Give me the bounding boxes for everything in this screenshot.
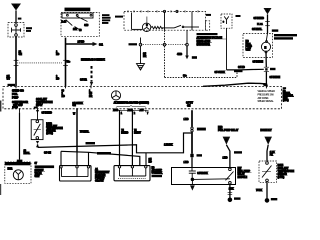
caption bracket xyxy=(116,105,146,108)
svg-text:INPUT: INPUT xyxy=(36,105,43,107)
svg-text:SENSOR: SENSOR xyxy=(278,174,288,176)
W10 label (black) xyxy=(234,197,241,199)
svg-text:0.5 BK/GN: 0.5 BK/GN xyxy=(270,77,281,79)
splice label (black) xyxy=(270,68,276,70)
svg-text:UNIT: UNIT xyxy=(35,176,41,178)
ground point W10 xyxy=(228,198,233,203)
connector on TD wire xyxy=(17,160,23,162)
label right of cluster xyxy=(206,14,211,16)
gauge pin stub xyxy=(146,17,148,24)
svg-text:SPEED SIGNAL: SPEED SIGNAL xyxy=(258,100,275,103)
sensor feed wire xyxy=(267,145,268,161)
K9 label block xyxy=(152,167,164,177)
svg-text:0.5 WT: 0.5 WT xyxy=(186,103,194,105)
resistor (gauge series) xyxy=(151,26,163,28)
svg-text:TEMPERATURE: TEMPERATURE xyxy=(278,170,295,173)
module bottom pin: TD signal xyxy=(12,106,20,113)
svg-text:ALTERNATOR GROUND (BEHIND): ALTERNATOR GROUND (BEHIND) xyxy=(114,102,149,105)
wire cluster to ground W7 xyxy=(140,46,142,64)
svg-text:D: D xyxy=(267,138,269,142)
scan edge artifact upper xyxy=(0,101,1,112)
ground arrow under relay xyxy=(190,185,195,190)
svg-text:0.5 GN: 0.5 GN xyxy=(44,152,51,154)
relay label block K27 xyxy=(238,168,252,179)
relay feed wire xyxy=(226,145,230,168)
svg-text:A: A xyxy=(266,9,268,13)
coolant temperature sensor B11/4 (dashed box) xyxy=(259,161,277,182)
gauge feed wires inside cluster xyxy=(131,13,133,30)
connector label (black) xyxy=(129,43,138,45)
wire pin 192 down xyxy=(191,110,193,127)
fuel pump relay K27 (long box) xyxy=(172,168,236,185)
module internal text left xyxy=(12,90,28,106)
module bottom pins bracket xyxy=(117,110,149,112)
harness connector line (dashed) with circles xyxy=(139,43,188,46)
svg-text:MODULE: MODULE xyxy=(238,177,248,179)
svg-text:0.5 RD/BK: 0.5 RD/BK xyxy=(197,173,208,175)
svg-text:HORN RLY: HORN RLY xyxy=(260,130,272,132)
alternator regulator label block A8 xyxy=(197,33,227,46)
svg-text:B11/4: B11/4 xyxy=(278,164,284,167)
sensor B11/4 label block xyxy=(278,164,295,179)
label A1 left of cluster xyxy=(115,16,123,18)
cluster pin circles xyxy=(163,10,165,12)
module internal text middle xyxy=(36,98,53,107)
wire splice to module pin xyxy=(265,72,267,87)
svg-text:TEMPERATURE: TEMPERATURE xyxy=(36,101,53,104)
svg-text:GN: GN xyxy=(187,105,191,107)
TD wire down xyxy=(19,113,21,160)
wire X35 down xyxy=(191,132,193,154)
fuel level sensor G20 (dashed box) xyxy=(8,23,24,38)
sensor run wire across to relay column xyxy=(38,133,191,153)
fuel pump ground wire xyxy=(265,52,267,67)
wire cluster to alternator connector xyxy=(186,30,188,43)
svg-text:CIRCUIT: CIRCUIT xyxy=(95,180,104,182)
cluster internal wire 164 xyxy=(164,13,166,31)
svg-text:(4 PIN): (4 PIN) xyxy=(46,132,53,135)
svg-text:PRESSURE SW: PRESSURE SW xyxy=(258,94,275,96)
interface connector box left (solid) xyxy=(60,166,92,181)
coolant temperature sensor B11/2 xyxy=(31,120,43,140)
fuel pump label (black, 2 rows) xyxy=(274,34,297,40)
svg-text:POS OF ACC VOLT: POS OF ACC VOLT xyxy=(65,9,86,12)
wire into relay box xyxy=(191,157,193,167)
svg-text:RD: RD xyxy=(62,96,66,98)
connector triangle A (fuel pump feed) xyxy=(264,8,272,14)
svg-text:4 RD: 4 RD xyxy=(177,53,182,56)
svg-text:GN: GN xyxy=(72,105,76,107)
sensor wire to junction xyxy=(37,144,39,147)
svg-text:INTERFACE CONNECT.: INTERFACE CONNECT. xyxy=(81,59,105,62)
svg-text:0.5 BK/RD: 0.5 BK/RD xyxy=(254,18,265,20)
feed arrow to terminal 61 xyxy=(66,42,98,46)
coolant temperature gauge xyxy=(142,23,150,31)
svg-text:1 RD: 1 RD xyxy=(184,119,189,121)
cluster internal switch xyxy=(162,25,199,28)
ticks on ground wire xyxy=(228,193,233,195)
connector ticks on switch wire xyxy=(63,60,68,65)
scan edge artifact lower xyxy=(0,184,1,195)
svg-text:H: H xyxy=(14,4,17,8)
connector X35 xyxy=(191,127,193,132)
svg-text:2.5 RD: 2.5 RD xyxy=(78,41,85,43)
svg-text:COOLANT: COOLANT xyxy=(36,98,47,101)
instrument cluster A1 (dashed box) xyxy=(124,11,210,30)
svg-text:UNIT: UNIT xyxy=(246,49,252,51)
label G20 xyxy=(26,27,32,32)
branch down into connector box xyxy=(145,153,147,166)
wire label blob xyxy=(18,18,22,20)
svg-text:C: C xyxy=(225,138,227,142)
alternator ground symbol W xyxy=(111,91,120,100)
svg-text:COMPRESSOR: COMPRESSOR xyxy=(12,102,28,104)
svg-text:EGR: EGR xyxy=(8,168,13,170)
svg-text:0.5 RD: 0.5 RD xyxy=(238,67,245,69)
wire from triangle H to sensor G20 xyxy=(15,11,17,24)
svg-text:75 BK/YL: 75 BK/YL xyxy=(80,132,90,134)
svg-text:F1 8A: F1 8A xyxy=(257,23,263,26)
label block right of switch (S16/3) xyxy=(102,14,111,24)
splice on wire (black) xyxy=(190,154,193,157)
svg-text:C.A: C.A xyxy=(264,83,268,86)
label S22 (black) xyxy=(234,151,242,153)
svg-text:1 RD/BK: 1 RD/BK xyxy=(164,144,173,146)
label 0.5 WT/RD (black) xyxy=(97,152,111,155)
svg-text:INSTRUMENT: INSTRUMENT xyxy=(95,172,110,174)
drop to pin 61 xyxy=(60,151,62,165)
module bottom wire pin (x77) xyxy=(76,108,78,152)
relay ground wire xyxy=(229,185,231,199)
svg-text:FUEL PUMP RELAY: FUEL PUMP RELAY xyxy=(218,129,239,132)
svg-text:0.5 GY/BK: 0.5 GY/BK xyxy=(215,72,226,74)
wire from ground plate to splice xyxy=(227,28,264,70)
label block between boxes (A1 printed circuit) xyxy=(95,168,110,182)
fuel pump feed wire xyxy=(267,14,269,33)
module internal text right (bold) xyxy=(258,91,276,103)
svg-text:FUEL: FUEL xyxy=(12,94,18,96)
control module N3 (large dashed box) xyxy=(3,87,282,109)
svg-text:0.5 BK/GN: 0.5 BK/GN xyxy=(253,62,264,64)
interface connector box right (solid) xyxy=(114,166,150,181)
connector triangle C (relay feed) xyxy=(223,137,231,145)
svg-text:1 RD: 1 RD xyxy=(223,158,228,160)
svg-text:FUEL: FUEL xyxy=(246,44,252,46)
label X35 (black) xyxy=(234,70,243,72)
connector triangle H (feed to fuel level sensor) xyxy=(11,4,21,11)
interface wire end connector xyxy=(90,82,93,86)
ground point W10 right xyxy=(265,198,270,203)
module top pin ticks xyxy=(16,85,266,89)
cluster internal wire 192 xyxy=(191,11,193,30)
svg-text:(EDS): (EDS) xyxy=(283,100,289,102)
svg-text:0.5 RD/YL: 0.5 RD/YL xyxy=(252,29,263,31)
fuel pump M3 (dashed box with motor) xyxy=(243,33,273,57)
sensor label B11/2 xyxy=(34,107,63,135)
svg-text:BR: BR xyxy=(89,96,93,98)
splice label xyxy=(197,154,203,156)
pin label 31 WT (black) xyxy=(8,84,16,86)
svg-text:0.5 BR: 0.5 BR xyxy=(80,80,87,82)
svg-text:M: M xyxy=(264,47,266,49)
svg-text:0.5 BK/RD: 0.5 BK/RD xyxy=(42,113,53,115)
svg-text:COMPRESSOR CUT: COMPRESSOR CUT xyxy=(5,164,26,166)
svg-text:SPEED SIG: SPEED SIG xyxy=(12,90,24,92)
label W1 right of plate xyxy=(236,15,241,17)
compressor valve label block xyxy=(35,163,55,178)
W10 label right (black) xyxy=(271,198,278,200)
label 0.5 WT (black) xyxy=(86,142,96,144)
inline fuse mark xyxy=(257,22,270,26)
splice S22 xyxy=(264,67,269,71)
chassis ground symbol xyxy=(137,64,145,70)
label X35 (black) xyxy=(197,128,206,131)
ground connector plate W3 (dashed box with Y) xyxy=(221,14,232,28)
alternator wire with terminal arrow xyxy=(185,46,189,59)
svg-text:75 BK: 75 BK xyxy=(256,190,263,192)
svg-text:PUMP: PUMP xyxy=(12,98,19,100)
svg-text:COOLANT: COOLANT xyxy=(278,167,289,170)
wire pin 132.4 xyxy=(131,110,133,165)
sensor bottom connector pair xyxy=(36,141,39,147)
wire from switch terminal 15 down xyxy=(65,38,67,87)
svg-text:VEHICLE SPEED: VEHICLE SPEED xyxy=(258,91,276,93)
rotary switch header (black banner) xyxy=(65,8,91,12)
drop to pin 77 xyxy=(76,152,78,166)
ignition switch S2 (dashed box) xyxy=(61,13,99,37)
wire stub above circle xyxy=(140,38,142,44)
cluster pin ticks xyxy=(128,10,198,12)
svg-text:PRINTED: PRINTED xyxy=(95,178,105,180)
module label right (A1 etc) xyxy=(283,87,294,102)
terminal 30 label (black) xyxy=(192,56,197,59)
drop to pin 88.5 xyxy=(88,152,90,165)
svg-text:(2 PIN): (2 PIN) xyxy=(278,177,285,179)
wavy wire joining module pin xyxy=(203,83,266,86)
sensor ground wire xyxy=(266,182,268,198)
compressor cutoff valve unit (dashed box) xyxy=(5,162,31,183)
dashed wire from cluster pin down and across xyxy=(165,30,238,77)
thick dashed wire (interface) xyxy=(91,66,93,82)
wire sensor to control box pin (0.5 WT) xyxy=(15,37,17,86)
connector ticks on left wire xyxy=(14,60,19,65)
svg-text:15R: 15R xyxy=(73,29,77,31)
svg-text:B.4S: B.4S xyxy=(61,20,66,23)
svg-text:1 BK: 1 BK xyxy=(229,188,234,190)
svg-text:1 RD: 1 RD xyxy=(184,162,189,164)
label 15 (black) xyxy=(272,29,279,31)
dashed connector line between wires xyxy=(17,62,62,64)
svg-text:AIR COND.: AIR COND. xyxy=(258,97,270,100)
wire pin 119.5 xyxy=(119,110,121,165)
svg-text:PUMP: PUMP xyxy=(246,47,253,49)
svg-text:CLUSTER: CLUSTER xyxy=(95,175,106,177)
connector triangle D (sensor feed) xyxy=(264,137,272,145)
module bottom pin to temp sensor xyxy=(36,108,39,120)
splice bar to interface box pins xyxy=(61,151,140,165)
